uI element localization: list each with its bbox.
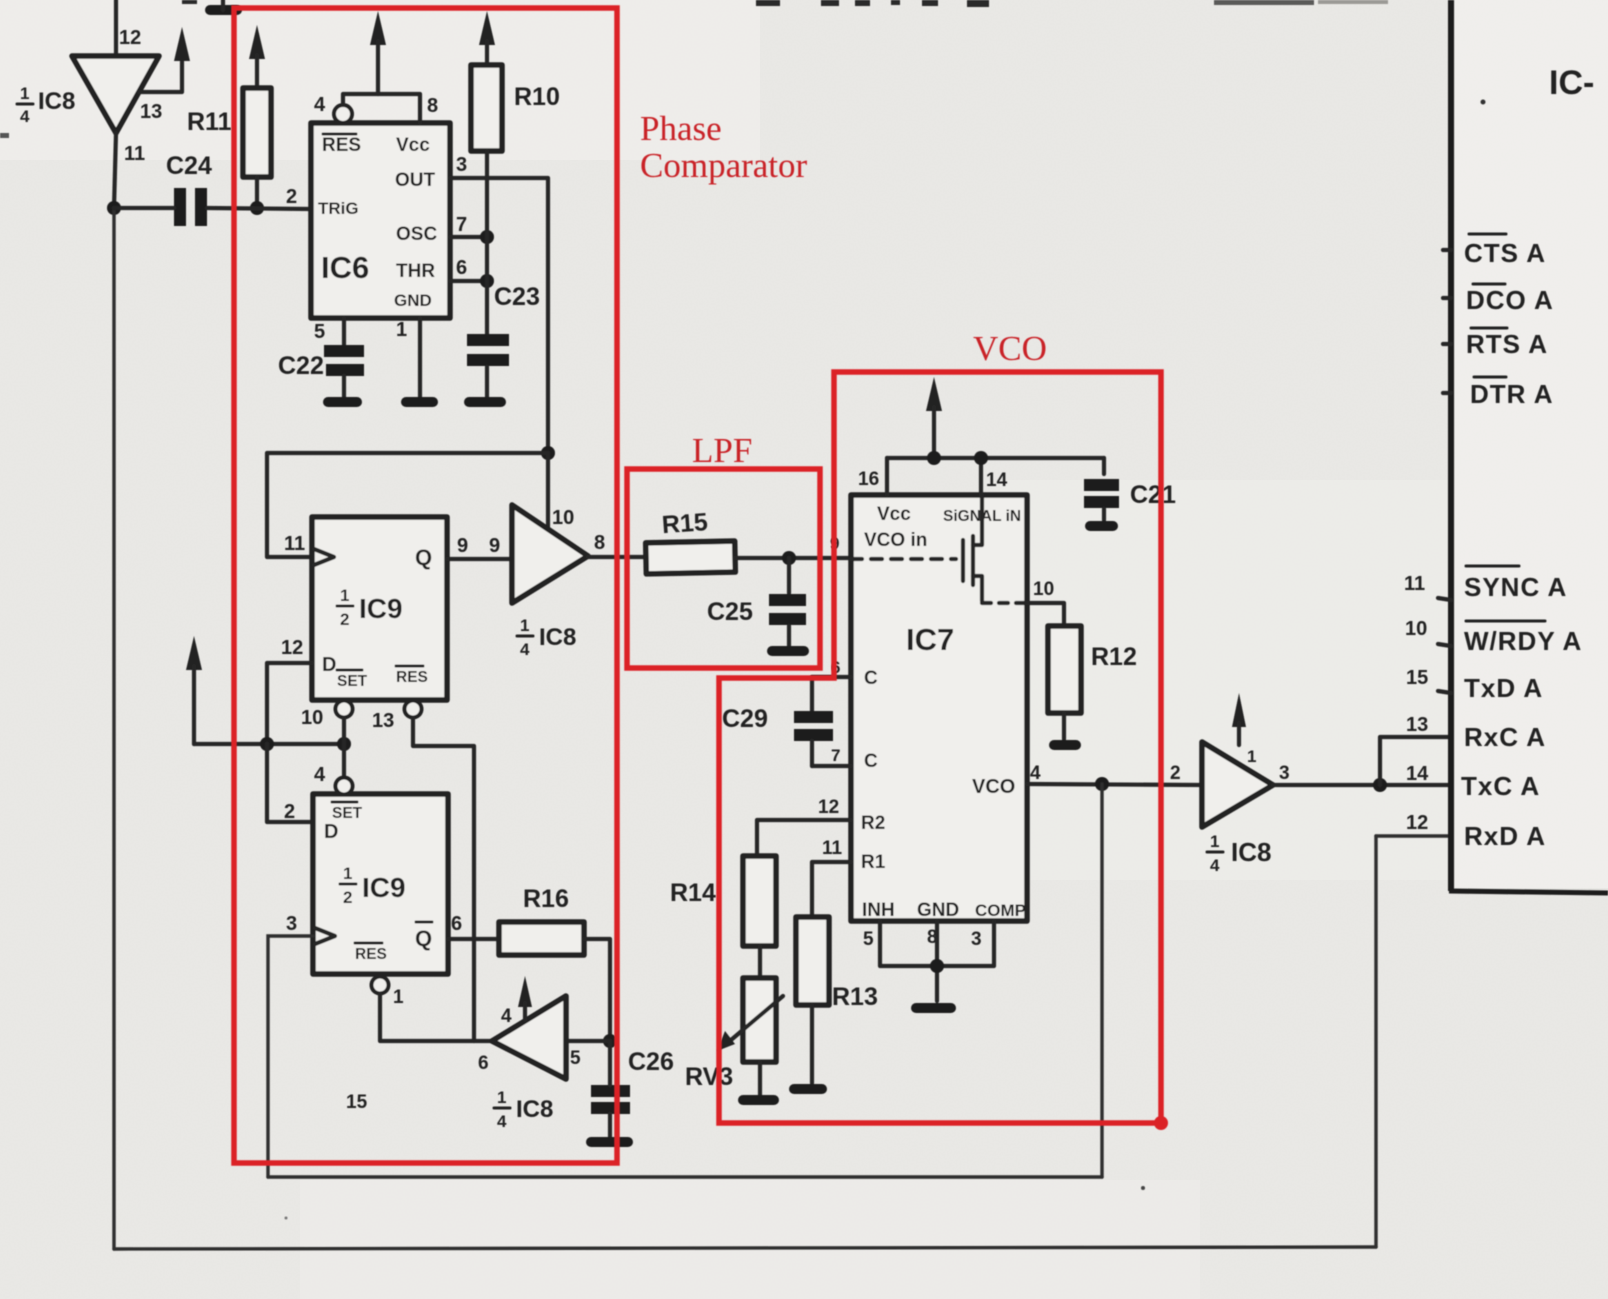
svg-text:3: 3 <box>456 154 467 176</box>
pin tick DTR <box>1443 391 1451 395</box>
node junction D/+V <box>260 737 274 751</box>
svg-text:THR: THR <box>396 261 435 282</box>
wire +V rail to set bubbles <box>194 742 344 746</box>
ground R12 <box>1054 740 1076 750</box>
svg-text:RxD A: RxD A <box>1464 821 1546 851</box>
node junction inverter output / C24 <box>107 201 121 215</box>
capacitor C22 <box>324 351 364 402</box>
wire gate input pin 5 <box>566 1039 610 1043</box>
node pin6/R10 lead <box>480 274 494 288</box>
pin tick 15 <box>1438 691 1451 693</box>
wire pin 12 to R14 <box>757 820 851 856</box>
wire pin16 stub <box>885 458 889 495</box>
power arrow near inverter <box>174 27 190 61</box>
red box LPF <box>627 469 820 668</box>
wire VCO output pin 4 <box>1027 784 1202 785</box>
svg-text:IC9: IC9 <box>359 593 403 624</box>
wire to RxC A pin 13 <box>1380 737 1450 785</box>
flip-flop FF2 1/2 IC9 <box>313 794 448 974</box>
svg-text:IC7: IC7 <box>906 622 954 657</box>
wire pin14 stub <box>979 458 983 496</box>
wire FF2 D pin 2 <box>267 744 313 822</box>
red box Phase Comparator <box>234 8 617 1163</box>
svg-text:4: 4 <box>1030 763 1041 784</box>
svg-text:12: 12 <box>818 797 839 818</box>
signal CTS A <box>1464 234 1546 268</box>
svg-text:16: 16 <box>858 469 879 490</box>
wire pin 11 to R13 <box>812 862 851 917</box>
wire side tap pin 13 to +V arrow <box>139 58 182 92</box>
IC6 pin 4 bubble <box>334 105 352 123</box>
FF2 pin name RES <box>355 943 387 963</box>
pin tick DCO <box>1443 296 1451 300</box>
wire FF1 SET bubble to rail <box>342 718 346 744</box>
wire top bracket pin4-pin8 Vcc <box>343 94 420 123</box>
transistor source link <box>973 576 982 601</box>
inverter gate 1/4 IC8 <box>72 56 159 133</box>
svg-text:D: D <box>324 821 338 843</box>
svg-text:5: 5 <box>314 321 325 343</box>
svg-text:4: 4 <box>314 764 326 786</box>
wire pin 10 to R12 <box>1027 603 1064 626</box>
svg-text:R13: R13 <box>832 983 878 1011</box>
long left vertical wire to bottom rail <box>112 208 115 1249</box>
svg-text:3: 3 <box>286 913 297 935</box>
svg-text:RES: RES <box>396 669 428 686</box>
svg-text:10: 10 <box>1033 579 1054 600</box>
power arrow on buffer2 <box>518 976 532 1007</box>
pin tick CTS <box>1443 248 1451 252</box>
svg-text:Comparator: Comparator <box>640 146 808 185</box>
svg-text:C21: C21 <box>1130 481 1176 509</box>
svg-text:DCO A: DCO A <box>1466 285 1554 315</box>
svg-text:C29: C29 <box>722 705 768 733</box>
svg-text:C: C <box>864 751 878 772</box>
svg-text:12: 12 <box>1406 812 1428 834</box>
wire feedback to gate input pin 10 <box>546 453 550 527</box>
resistor R14 <box>743 856 776 946</box>
FF2 RES bubble pin 1 <box>372 977 389 994</box>
svg-text:1: 1 <box>1247 747 1256 766</box>
svg-text:1: 1 <box>343 864 352 883</box>
resistor R12 <box>1048 626 1081 713</box>
svg-text:14: 14 <box>986 470 1008 491</box>
signal W/RDY A <box>1464 621 1582 656</box>
power arrow above IC7 <box>926 377 942 411</box>
gate 1/4 IC8 buffer1 <box>512 505 588 603</box>
svg-text:13: 13 <box>140 101 162 123</box>
svg-text:14: 14 <box>1406 763 1429 785</box>
svg-text:15: 15 <box>1406 667 1428 689</box>
svg-text:6: 6 <box>451 913 462 935</box>
wire FF2 clock pin 3 from VCO feedback <box>268 936 313 1177</box>
pin tick 10 <box>1438 644 1451 646</box>
signal SYNC A <box>1464 566 1567 602</box>
svg-text:Vcc: Vcc <box>877 504 911 525</box>
svg-text:4: 4 <box>520 640 530 659</box>
wire IC6 pin 1 stub <box>418 318 422 397</box>
svg-text:SET: SET <box>337 673 368 690</box>
svg-text:RES: RES <box>322 135 361 156</box>
FF1 RES bubble pin 13 <box>405 701 422 718</box>
ground IC7 <box>916 1003 951 1013</box>
FF1 pin name RES <box>396 666 428 686</box>
label 1/4 IC8 top-left <box>17 84 75 126</box>
wire Vcc top rail <box>887 456 1104 460</box>
wire R10 bottom lead to C23 <box>485 151 489 334</box>
serial chip IC edge <box>1448 0 1454 891</box>
svg-text:7: 7 <box>831 746 840 765</box>
wire R12 bottom <box>1062 713 1066 739</box>
trimmer RV3 <box>743 978 776 1062</box>
node junction R11 / TRIG wire <box>250 201 264 215</box>
svg-text:9: 9 <box>489 535 500 557</box>
svg-text:IC-: IC- <box>1549 64 1594 102</box>
wire R16 right lead down <box>584 939 610 1041</box>
node junction VCO out <box>1095 777 1109 791</box>
svg-text:8: 8 <box>594 532 605 554</box>
wire gate1 output pin 8 to R15 <box>588 555 646 559</box>
top edge cut marks <box>0 0 1388 138</box>
signal RTS A <box>1466 328 1548 359</box>
svg-text:1: 1 <box>396 319 407 341</box>
wire FF2 SET pin 4 from rail <box>342 744 346 777</box>
svg-text:13: 13 <box>372 710 394 732</box>
svg-text:RTS A: RTS A <box>1466 329 1548 359</box>
wire FF2 Qbar pin 6 to R16 <box>448 937 499 941</box>
svg-text:Q: Q <box>415 926 432 951</box>
svg-text:5: 5 <box>863 929 874 950</box>
svg-text:VCO: VCO <box>973 329 1047 368</box>
svg-text:1: 1 <box>520 616 529 635</box>
svg-text:C25: C25 <box>707 598 753 626</box>
svg-text:LPF: LPF <box>692 431 752 470</box>
svg-text:D: D <box>322 654 336 676</box>
wire FF1 RES pin 13 down right <box>413 718 474 1041</box>
svg-text:4: 4 <box>501 1006 512 1027</box>
wire C24 right to TRIG pin 2 <box>207 208 311 209</box>
VCO chip IC7 <box>851 495 1027 921</box>
svg-text:VCO: VCO <box>972 776 1015 798</box>
wire R11 bottom lead <box>255 177 259 208</box>
svg-text:Phase: Phase <box>640 109 722 148</box>
node pin7/R10 lead <box>480 230 494 244</box>
svg-text:IC8: IC8 <box>38 88 75 115</box>
power arrow on buffer3 <box>1232 693 1246 727</box>
svg-text:Vcc: Vcc <box>396 135 430 156</box>
svg-text:OUT: OUT <box>395 170 436 191</box>
signal DCO A <box>1466 284 1554 315</box>
svg-text:C23: C23 <box>494 283 540 311</box>
svg-text:6: 6 <box>478 1053 489 1074</box>
power arrow mid left <box>186 636 202 670</box>
FF2 pin name SET <box>332 802 363 822</box>
ground pin 1 <box>406 397 433 407</box>
svg-text:DTR A: DTR A <box>1470 379 1553 409</box>
power arrow above R10 <box>479 11 495 45</box>
svg-text:COMP: COMP <box>975 901 1026 920</box>
timer IC6 <box>311 123 450 318</box>
node junction buffer3 out <box>1373 778 1387 792</box>
label 1/4 IC8 below buffer2 <box>494 1088 553 1131</box>
svg-text:10: 10 <box>1405 618 1427 640</box>
wire VCO feedback down <box>1100 784 1103 1177</box>
wire bottom pin stubs <box>880 921 994 1001</box>
svg-text:C: C <box>864 668 878 689</box>
svg-text:1: 1 <box>340 586 349 605</box>
svg-text:15: 15 <box>346 1092 368 1113</box>
svg-text:R15: R15 <box>661 508 709 539</box>
dashed wire VCO in to gate <box>851 557 956 561</box>
wire FF1 D pin 12 down to +V rail <box>267 663 312 744</box>
dashed wire source to pin 10 <box>982 601 1027 605</box>
svg-text:IC6: IC6 <box>321 250 369 285</box>
svg-text:SYNC A: SYNC A <box>1464 572 1567 602</box>
capacitor C29 <box>794 717 833 766</box>
node junction gnd stub <box>930 959 944 973</box>
svg-text:R11: R11 <box>187 108 232 136</box>
svg-text:OSC: OSC <box>396 224 437 245</box>
svg-text:R1: R1 <box>861 852 886 873</box>
wire R15 to IC7 pin 9 <box>735 556 851 560</box>
signal DTR A <box>1470 377 1553 409</box>
FF1 clock chevron <box>314 549 334 565</box>
pin tick 11 <box>1438 598 1451 600</box>
wire IC6 pin 5 stub <box>342 318 346 347</box>
svg-text:TxC A: TxC A <box>1461 771 1540 801</box>
svg-text:1: 1 <box>1210 832 1219 851</box>
FF2 clock chevron pin 3 <box>315 928 335 944</box>
node junction C25 <box>782 551 796 565</box>
wire pin 6 to C29 <box>812 677 851 711</box>
svg-text:4: 4 <box>497 1112 507 1131</box>
inverter U-IC8a input wire pin 12 <box>114 0 118 56</box>
wire C29 to pin 7 <box>812 764 851 768</box>
svg-text:3: 3 <box>1279 763 1290 784</box>
gate 1/4 IC8 buffer3 <box>1202 742 1273 827</box>
svg-text:CTS A: CTS A <box>1464 238 1546 268</box>
ground remnant top <box>210 0 237 10</box>
power arrow above IC6 <box>370 11 386 45</box>
wire RV3 bottom <box>758 1062 762 1095</box>
svg-text:SET: SET <box>332 805 363 822</box>
pin tick RTS <box>1443 342 1451 346</box>
svg-text:R16: R16 <box>523 885 569 913</box>
svg-text:4: 4 <box>314 94 326 116</box>
label 1/4 IC8 below buffer3 <box>1207 832 1271 875</box>
ground R13 <box>794 1084 822 1094</box>
FF1 SET bubble pin 10 <box>336 701 353 718</box>
svg-text:12: 12 <box>119 27 141 49</box>
resistor R15 <box>646 541 736 574</box>
transistor MOSFET gate bar <box>961 540 965 581</box>
node junction OUT feedback <box>541 446 555 460</box>
svg-text:2: 2 <box>1170 763 1181 784</box>
capacitor C25 <box>769 558 806 651</box>
wire RxD A pin 12 <box>1376 834 1450 837</box>
capacitor C24 <box>180 188 201 226</box>
FF1 pin name SET <box>337 670 368 690</box>
inverter output wire pin 11 down <box>114 133 116 208</box>
wire pin 7 stub <box>450 235 487 239</box>
wire feedback to FF1 clock pin 11 <box>267 453 548 557</box>
transistor MOSFET channel bar <box>971 536 975 585</box>
speck marks <box>1481 100 1486 105</box>
svg-text:Q: Q <box>415 545 432 570</box>
wire buffer3 output to TxC A pin 14 <box>1273 783 1450 787</box>
svg-text:IC8: IC8 <box>1231 837 1271 867</box>
svg-text:R14: R14 <box>670 879 716 907</box>
wire OUT pin 3 feedback <box>450 178 548 453</box>
capacitor C21 <box>1084 458 1119 526</box>
svg-text:11: 11 <box>1404 573 1425 595</box>
bottom rail A <box>268 1175 1102 1178</box>
svg-text:C26: C26 <box>628 1048 674 1076</box>
svg-text:9: 9 <box>457 535 468 557</box>
node junction set wire <box>337 737 351 751</box>
svg-text:11: 11 <box>822 838 843 859</box>
ground RV3 <box>743 1095 774 1105</box>
FF2 pin name Qbar <box>415 922 432 951</box>
resistor R11 power arrow <box>249 25 265 59</box>
serial chip IC bottom edge <box>1449 891 1608 893</box>
transistor drain link to pin 14 <box>973 495 982 545</box>
wire R13 bottom <box>810 1005 814 1083</box>
pin name RES <box>322 134 361 156</box>
svg-text:2: 2 <box>340 610 349 629</box>
capacitor C26 <box>591 1041 630 1142</box>
svg-text:10: 10 <box>301 707 323 729</box>
svg-text:IC8: IC8 <box>516 1096 553 1123</box>
wire FF2 RES pin 1 to gate output <box>380 994 492 1041</box>
RV3 wiper arrow <box>717 996 783 1051</box>
svg-text:IC9: IC9 <box>362 872 406 903</box>
svg-text:1: 1 <box>393 987 404 1008</box>
svg-text:GND: GND <box>394 291 432 310</box>
resistor R13 <box>796 917 829 1005</box>
svg-text:2: 2 <box>286 186 297 208</box>
svg-text:GND: GND <box>917 900 959 921</box>
resistor R11 <box>243 88 271 177</box>
svg-text:2: 2 <box>343 888 352 907</box>
label 1/4 IC8 below gate <box>517 616 576 659</box>
svg-text:VCO in: VCO in <box>864 530 927 551</box>
riser to RxD A pin 12 <box>1374 836 1377 1247</box>
svg-text:C22: C22 <box>278 352 324 380</box>
svg-text:RxC A: RxC A <box>1464 722 1546 752</box>
svg-text:R2: R2 <box>861 813 885 834</box>
svg-text:11: 11 <box>124 143 145 165</box>
svg-text:12: 12 <box>281 637 303 659</box>
wire FF1 Q pin 9 to gate <box>447 557 512 561</box>
svg-text:RES: RES <box>355 946 387 963</box>
label 1/2 IC9 <box>337 586 403 629</box>
wire pin 6 stub <box>450 279 487 283</box>
flip-flop FF1 1/2 IC9 <box>312 517 447 700</box>
node junction arrow base <box>927 451 941 465</box>
bottom rail B <box>114 1247 1376 1249</box>
svg-text:6: 6 <box>456 257 467 279</box>
svg-text:3: 3 <box>971 929 982 950</box>
svg-text:8: 8 <box>427 95 438 117</box>
label 1/2 IC9 <box>340 864 406 907</box>
resistor R10 <box>471 65 502 151</box>
red box VCO L-shape <box>719 372 1161 1123</box>
node junction R16/C26/gate input <box>603 1034 617 1048</box>
node junction pin14 <box>974 451 988 465</box>
svg-text:TRiG: TRiG <box>318 199 359 218</box>
svg-text:R12: R12 <box>1091 643 1137 671</box>
svg-text:5: 5 <box>570 1048 581 1069</box>
resistor R16 <box>499 922 584 955</box>
FF2 SET bubble pin 4 <box>336 778 353 795</box>
wire R14 to RV3 <box>758 946 762 978</box>
svg-text:11: 11 <box>284 533 305 555</box>
wire C24 left <box>114 206 174 210</box>
svg-text:R10: R10 <box>514 83 560 111</box>
svg-text:1: 1 <box>497 1088 506 1107</box>
svg-text:IC8: IC8 <box>539 624 576 651</box>
svg-text:4: 4 <box>20 107 30 126</box>
capacitor C23 <box>467 340 509 402</box>
svg-text:TxD A: TxD A <box>1464 673 1543 703</box>
svg-text:2: 2 <box>284 801 295 823</box>
svg-text:10: 10 <box>552 507 574 529</box>
svg-text:RV3: RV3 <box>685 1063 733 1091</box>
svg-text:7: 7 <box>456 214 467 236</box>
svg-text:W/RDY A: W/RDY A <box>1464 626 1582 656</box>
svg-text:13: 13 <box>1406 714 1428 736</box>
svg-text:4: 4 <box>1210 856 1220 875</box>
red corner blob <box>1154 1116 1168 1130</box>
svg-text:INH: INH <box>862 900 895 921</box>
svg-text:C24: C24 <box>166 152 212 180</box>
gate 1/4 IC8 buffer2 left-pointing <box>492 996 566 1079</box>
svg-text:1: 1 <box>20 84 29 103</box>
